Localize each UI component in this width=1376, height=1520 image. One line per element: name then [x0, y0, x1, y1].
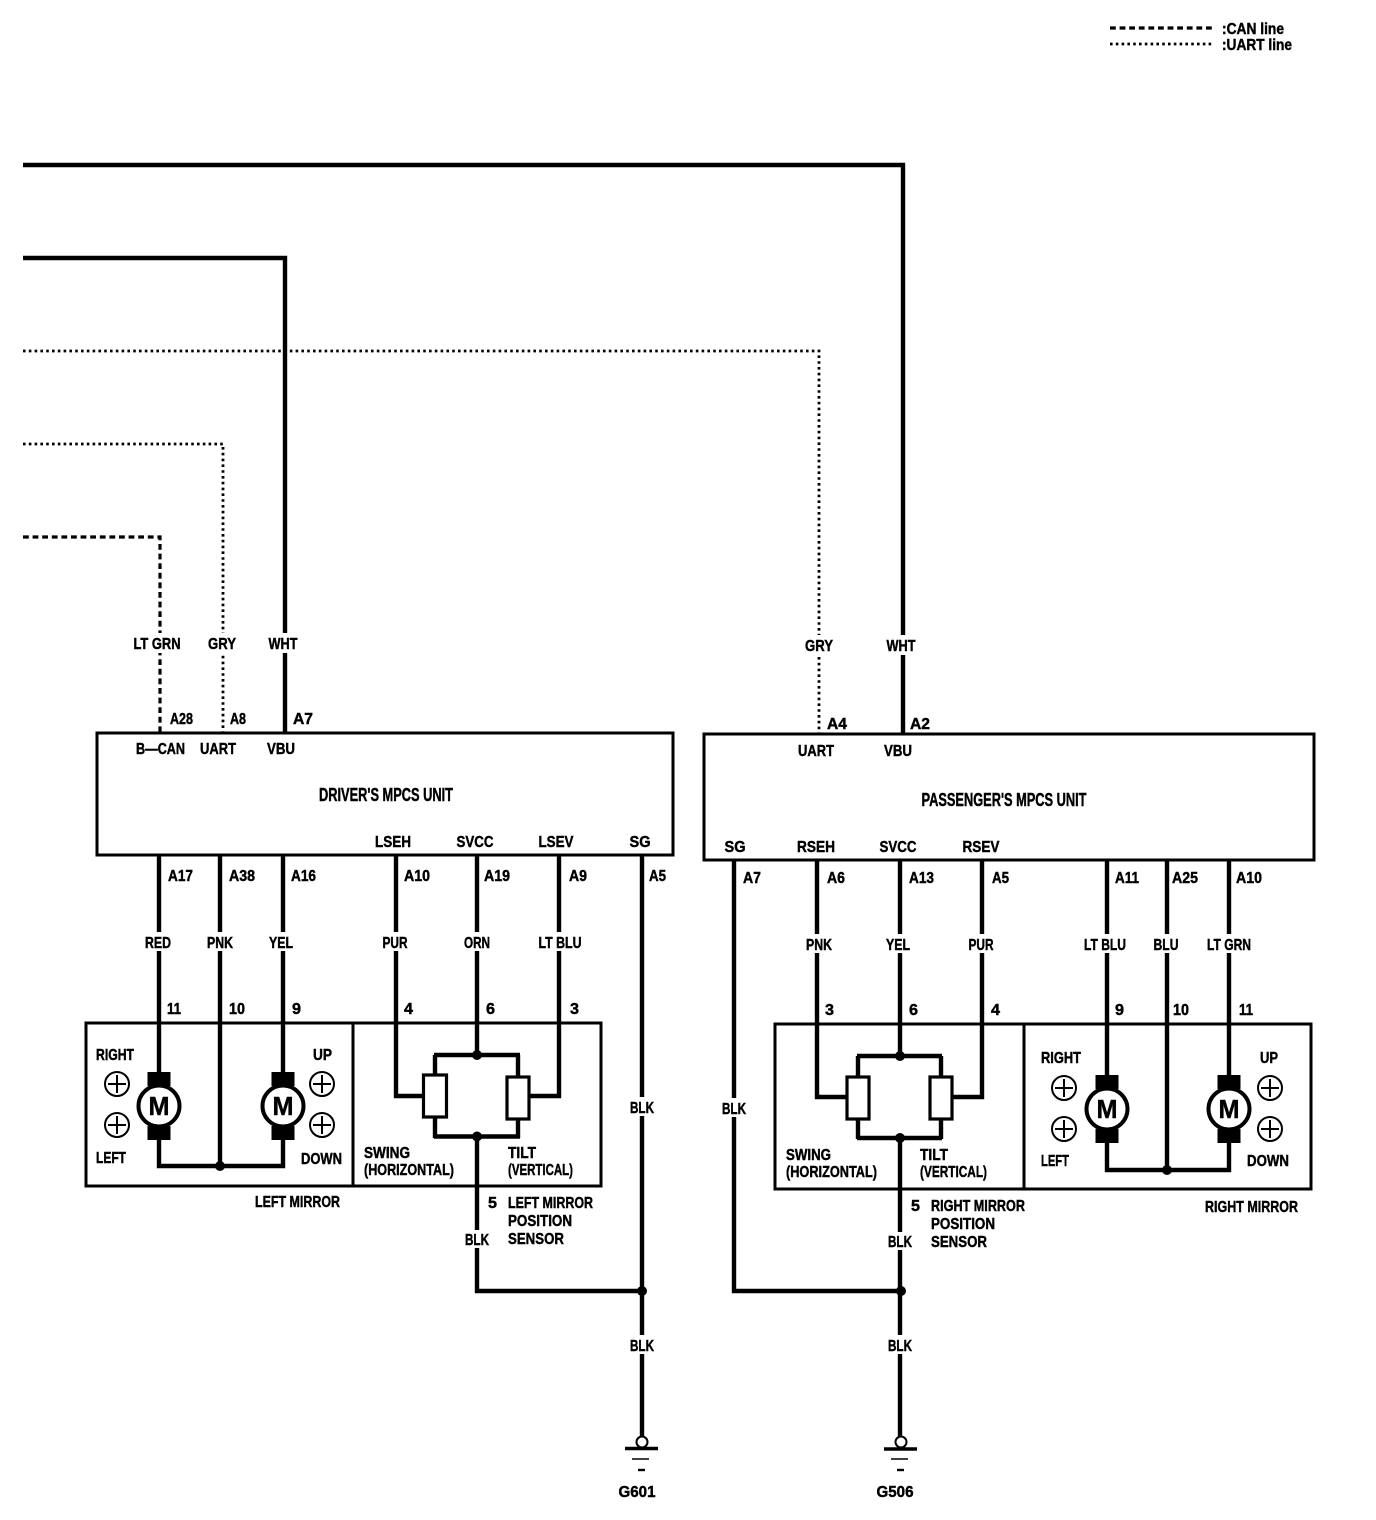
svg-text:M: M	[273, 1091, 294, 1121]
svg-text::CAN line: :CAN line	[1222, 21, 1284, 38]
wire right sensor right leg upper	[939, 1056, 943, 1078]
node left sensor top (SVCC)	[434, 1053, 520, 1057]
junction left sensor bottom	[472, 1132, 482, 1142]
svg-text:A19: A19	[484, 868, 510, 885]
ground G601	[619, 1437, 659, 1502]
svg-text:YEL: YEL	[269, 935, 293, 952]
junction left SG ground node	[637, 1286, 647, 1296]
label BLK right sensor wire	[886, 1232, 914, 1251]
svg-text:LSEH: LSEH	[375, 834, 411, 851]
svg-text:RIGHT: RIGHT	[96, 1047, 134, 1064]
wire A10 PUR (LSEH to left sensor swing tap)	[396, 855, 424, 1096]
label wire color BLU	[1151, 934, 1181, 954]
svg-text:SWING: SWING	[786, 1147, 831, 1164]
svg-text:UP: UP	[1260, 1050, 1278, 1067]
svg-text:SWING: SWING	[364, 1145, 410, 1162]
wire left sensor left leg upper	[433, 1055, 437, 1076]
junction right SG ground node	[896, 1286, 906, 1296]
svg-text:BLK: BLK	[888, 1234, 912, 1251]
label wire color LT BLU right	[1082, 934, 1129, 954]
svg-text:M: M	[1097, 1094, 1118, 1124]
svg-text:PNK: PNK	[806, 937, 832, 954]
label wire color YEL right	[884, 934, 913, 954]
wire VBU feeder left (WHT)	[23, 258, 285, 733]
svg-text:4: 4	[404, 1001, 413, 1018]
indicator arrow circle up-2	[1258, 1076, 1282, 1100]
svg-text:M: M	[1219, 1094, 1240, 1124]
indicator arrow circle left-1	[105, 1113, 129, 1137]
component right mirror assembly box	[1024, 1024, 1311, 1189]
svg-text:VBU: VBU	[884, 743, 912, 760]
indicator arrow circle right-1	[105, 1072, 129, 1096]
svg-text:RSEH: RSEH	[797, 839, 835, 856]
svg-text:4: 4	[991, 1002, 1000, 1019]
svg-text:LT BLU: LT BLU	[1084, 937, 1126, 954]
label wire color LT BLU left	[536, 932, 584, 952]
label wire color LT GRN	[130, 633, 184, 653]
svg-text:A6: A6	[827, 870, 845, 887]
resistor swing potentiometer left sensor	[424, 1075, 447, 1117]
svg-text:ORN: ORN	[464, 935, 490, 952]
svg-text:PNK: PNK	[207, 935, 233, 952]
svg-text:A13: A13	[909, 870, 934, 887]
svg-text:A8: A8	[230, 711, 246, 728]
svg-text:LEFT MIRROR: LEFT MIRROR	[255, 1194, 340, 1211]
wire right sensor right leg lower	[939, 1119, 943, 1139]
svg-text:DOWN: DOWN	[301, 1151, 342, 1168]
svg-text:10: 10	[1173, 1002, 1189, 1019]
wire A5 PUR (RSEV to right sensor tilt tap)	[952, 860, 982, 1097]
svg-text:A17: A17	[168, 868, 193, 885]
node right sensor bottom (SG)	[857, 1136, 942, 1140]
svg-text:(HORIZONTAL): (HORIZONTAL)	[364, 1162, 454, 1179]
label wire color RED	[143, 932, 174, 952]
wire A17 RED (driver to left mirror swing motor)	[157, 855, 161, 1072]
wire A9 LT BLU (LSEV to left sensor tilt tap)	[529, 855, 559, 1096]
legend CAN line sample	[1110, 26, 1213, 29]
svg-text:BLU: BLU	[1154, 937, 1179, 954]
junction left sensor top	[472, 1050, 482, 1060]
svg-text:VBU: VBU	[267, 741, 295, 758]
svg-text:5: 5	[911, 1198, 920, 1215]
label wire color YEL left	[267, 932, 296, 952]
svg-text:G506: G506	[877, 1484, 914, 1501]
svg-text:LT GRN: LT GRN	[134, 636, 181, 653]
motor M3 right mirror swing	[1087, 1075, 1128, 1143]
label wire color LT GRN right	[1204, 934, 1253, 954]
svg-text:TILT: TILT	[508, 1145, 536, 1162]
svg-text:SENSOR: SENSOR	[931, 1234, 987, 1251]
unit U2 passenger's MPCS unit	[704, 734, 1314, 860]
indicator arrow circle up-1	[310, 1072, 334, 1096]
svg-text:WHT: WHT	[269, 636, 298, 653]
wire VBU feeder right (WHT)	[23, 165, 903, 734]
svg-text:SVCC: SVCC	[457, 834, 494, 851]
svg-text:A2: A2	[910, 716, 930, 733]
wire right sensor left leg lower	[856, 1119, 860, 1139]
wire B-CAN feeder left (LT GRN, dashed)	[23, 537, 160, 733]
wire A25 BLU (passenger to right mirror motors common)	[1165, 860, 1169, 1170]
component left mirror assembly box	[86, 1023, 353, 1186]
svg-text:YEL: YEL	[886, 937, 910, 954]
junction right sensor top	[895, 1051, 905, 1061]
component left mirror position sensor box	[353, 1023, 601, 1186]
label BLK right SG wire	[720, 1098, 748, 1118]
label wire color GRY right	[803, 635, 835, 655]
motor M2 left mirror tilt	[263, 1072, 304, 1140]
wire A19 ORN (SVCC to left sensor top node)	[475, 855, 479, 1055]
svg-text:5: 5	[488, 1195, 497, 1212]
svg-text:DOWN: DOWN	[1247, 1153, 1289, 1170]
svg-text:PUR: PUR	[383, 935, 408, 952]
svg-text:G601: G601	[619, 1484, 656, 1501]
svg-text:9: 9	[292, 1001, 301, 1018]
svg-text:A38: A38	[229, 868, 255, 885]
svg-text::UART line: :UART line	[1222, 37, 1292, 54]
svg-text:B—CAN: B—CAN	[136, 741, 185, 758]
svg-text:LSEV: LSEV	[539, 834, 574, 851]
svg-text:(VERTICAL): (VERTICAL)	[508, 1162, 573, 1179]
svg-text:RED: RED	[145, 935, 171, 952]
svg-text:SG: SG	[725, 839, 746, 856]
wire A38 PNK (driver to left mirror motors common)	[218, 855, 222, 1166]
label BLK right ground wire	[886, 1335, 914, 1355]
svg-text:BLK: BLK	[722, 1101, 746, 1118]
svg-text:BLK: BLK	[630, 1100, 654, 1117]
wire left sensor BLK output pin 5	[477, 1136, 642, 1291]
svg-text:LEFT: LEFT	[96, 1150, 126, 1167]
svg-text:A4: A4	[827, 716, 847, 733]
svg-text:A9: A9	[569, 868, 587, 885]
svg-text:POSITION: POSITION	[931, 1216, 995, 1233]
wire left sensor left leg lower	[433, 1117, 437, 1138]
svg-text:RIGHT: RIGHT	[1041, 1050, 1081, 1067]
wire A7 SG BLK (passenger to ground G506)	[734, 860, 901, 1291]
label wire color WHT left	[267, 633, 300, 653]
svg-text:M: M	[149, 1091, 170, 1121]
label wire color PUR right	[966, 934, 996, 954]
svg-text:LEFT: LEFT	[1041, 1153, 1069, 1170]
label BLK left ground wire	[628, 1335, 656, 1355]
wire A10 LT GRN (passenger to right mirror tilt motor)	[1227, 860, 1231, 1075]
svg-text:SVCC: SVCC	[880, 839, 917, 856]
svg-text:6: 6	[486, 1001, 495, 1018]
node right sensor top (SVCC)	[857, 1054, 942, 1058]
svg-text:BLK: BLK	[888, 1338, 912, 1355]
svg-text:TILT: TILT	[920, 1147, 948, 1164]
ground G506	[877, 1437, 918, 1502]
svg-text:A5: A5	[649, 868, 666, 885]
wire UART feeder left (GRY, dotted)	[23, 444, 223, 733]
svg-text:GRY: GRY	[805, 638, 833, 655]
resistor tilt potentiometer left sensor	[507, 1077, 529, 1119]
label wire color WHT right	[885, 635, 918, 655]
junction left mirror common	[215, 1161, 225, 1171]
resistor tilt potentiometer right sensor	[930, 1077, 952, 1119]
wire UART feeder right (GRY, dotted)	[23, 351, 819, 734]
label wire color PNK left	[205, 932, 236, 952]
wire right mirror motors common bottom	[1107, 1141, 1229, 1170]
svg-text:11: 11	[167, 1001, 181, 1018]
wire A11 LT BLU (passenger to right mirror swing motor)	[1105, 860, 1109, 1075]
indicator arrow circle down-1	[310, 1113, 334, 1137]
indicator arrow circle left-2	[1052, 1117, 1076, 1141]
wire right sensor left leg upper	[856, 1056, 860, 1078]
svg-text:UART: UART	[200, 741, 236, 758]
motor M4 right mirror tilt	[1209, 1075, 1250, 1143]
label wire color PUR left	[380, 932, 410, 952]
svg-text:A7: A7	[743, 870, 761, 887]
svg-text:GRY: GRY	[208, 636, 236, 653]
svg-text:(HORIZONTAL): (HORIZONTAL)	[786, 1164, 877, 1181]
junction right sensor bottom	[895, 1133, 905, 1143]
svg-text:A10: A10	[404, 868, 430, 885]
svg-text:UART: UART	[798, 743, 834, 760]
svg-text:6: 6	[909, 1002, 918, 1019]
svg-text:10: 10	[229, 1001, 245, 1018]
indicator arrow circle down-2	[1258, 1117, 1282, 1141]
svg-text:BLK: BLK	[465, 1232, 489, 1249]
wire left mirror motors common bottom	[159, 1138, 283, 1166]
svg-text:RSEV: RSEV	[963, 839, 1000, 856]
svg-text:UP: UP	[313, 1047, 332, 1064]
svg-text:3: 3	[825, 1002, 834, 1019]
legend UART line sample	[1110, 43, 1213, 46]
svg-text:PASSENGER'S MPCS UNIT: PASSENGER'S MPCS UNIT	[922, 790, 1087, 810]
svg-text:A28: A28	[170, 711, 193, 728]
junction right mirror common	[1162, 1165, 1172, 1175]
unit U1 driver's MPCS unit	[97, 733, 673, 855]
svg-text:BLK: BLK	[630, 1338, 654, 1355]
svg-text:(VERTICAL): (VERTICAL)	[920, 1164, 987, 1181]
wire A6 PNK (RSEH to right sensor swing tap)	[817, 860, 847, 1097]
svg-text:11: 11	[1239, 1002, 1253, 1019]
svg-text:A10: A10	[1236, 870, 1262, 887]
node left sensor bottom (SG)	[434, 1134, 520, 1138]
svg-text:A25: A25	[1172, 870, 1198, 887]
svg-text:SG: SG	[630, 834, 651, 851]
svg-text:LEFT MIRROR: LEFT MIRROR	[508, 1195, 593, 1212]
svg-text:9: 9	[1115, 1002, 1124, 1019]
svg-text:A16: A16	[291, 868, 316, 885]
label BLK left SG wire	[628, 1097, 656, 1117]
svg-text:LT BLU: LT BLU	[539, 935, 582, 952]
svg-text:RIGHT MIRROR: RIGHT MIRROR	[931, 1198, 1025, 1215]
label wire color PNK right	[804, 934, 835, 954]
motor M1 left mirror swing	[139, 1072, 180, 1140]
label wire color GRY left	[206, 633, 238, 653]
svg-text:PUR: PUR	[969, 937, 994, 954]
svg-text:WHT: WHT	[887, 638, 916, 655]
wire left sensor right leg lower	[516, 1119, 520, 1138]
indicator arrow circle right-2	[1052, 1076, 1076, 1100]
label BLK left sensor wire	[463, 1230, 491, 1249]
wire right sensor BLK output pin 5	[898, 1138, 902, 1437]
svg-text:SENSOR: SENSOR	[508, 1231, 564, 1248]
wire A16 YEL (driver to left mirror tilt motor)	[281, 855, 285, 1072]
component right mirror position sensor box	[775, 1024, 1024, 1189]
svg-text:RIGHT MIRROR: RIGHT MIRROR	[1205, 1199, 1298, 1216]
svg-text:LT GRN: LT GRN	[1207, 937, 1251, 954]
resistor swing potentiometer right sensor	[847, 1077, 869, 1119]
svg-text:A7: A7	[293, 711, 313, 728]
svg-text:DRIVER'S MPCS UNIT: DRIVER'S MPCS UNIT	[319, 785, 453, 805]
wire A13 YEL (SVCC to right sensor top node)	[898, 860, 902, 1056]
wire A5 SG BLK (driver to ground G601)	[640, 855, 644, 1437]
svg-text:A5: A5	[992, 870, 1009, 887]
svg-text:A11: A11	[1115, 870, 1139, 887]
svg-text:3: 3	[570, 1001, 579, 1018]
wire left sensor right leg upper	[516, 1055, 520, 1078]
svg-text:POSITION: POSITION	[508, 1213, 572, 1230]
label wire color ORN	[461, 932, 492, 952]
